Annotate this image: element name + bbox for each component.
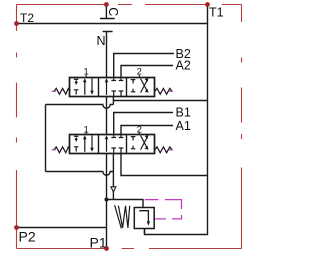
wire port B2: [114, 54, 174, 79]
svg-text:C: C: [106, 7, 120, 16]
wire valve2 T stub: [112, 153, 114, 200]
relief valve RV1 adjust arrow: [115, 205, 122, 228]
svg-text:1: 1: [84, 67, 89, 78]
svg-text:2: 2: [137, 125, 142, 136]
port node C: [104, 2, 109, 7]
tick position 1 valve V1: [85, 75, 87, 77]
valve V2 internals: [74, 134, 149, 153]
port node T2: [14, 21, 19, 26]
wire tank gallery hop 1: [46, 105, 114, 109]
valve V1 internals: [74, 77, 149, 96]
svg-text:N: N: [97, 34, 106, 48]
wire P riser lower: [106, 153, 108, 249]
port node T1: [205, 2, 210, 7]
wire P2 line: [17, 227, 107, 229]
svg-text:T2: T2: [20, 11, 34, 25]
enclosure boundary (red dash-dot frame): [17, 5, 242, 249]
tick position 1 valve V2: [85, 132, 87, 134]
relief valve RV1 internal arrow: [139, 211, 148, 222]
spring V2 right: [155, 147, 172, 153]
relief valve RV1 spring: [118, 206, 129, 228]
wire valve2 right port to tank line: [121, 153, 208, 176]
wire valve1 T to right tank line: [113, 100, 208, 102]
wire relief inlet: [107, 200, 144, 209]
svg-text:P1: P1: [90, 235, 107, 251]
junction relief tee: [105, 198, 109, 202]
svg-text:1: 1: [84, 125, 89, 136]
wire port A1: [121, 126, 173, 136]
spring V1 right: [155, 88, 172, 94]
valve V2 body: [70, 135, 155, 154]
svg-text:B1: B1: [176, 105, 191, 119]
svg-text:A1: A1: [176, 119, 191, 133]
pilot line X (magenta dashed): [145, 200, 182, 219]
svg-text:2: 2: [137, 67, 142, 78]
relief valve RV1 outlet: [144, 229, 146, 235]
valve V1 body: [70, 78, 155, 97]
tank symbol N: [103, 32, 113, 79]
port node P2: [14, 225, 19, 230]
tank symbol C: [100, 5, 115, 19]
svg-text:P2: P2: [19, 228, 36, 244]
tick position 2 valve V1: [138, 75, 140, 77]
tick position 2 valve V2: [138, 132, 140, 134]
port node P1: [104, 246, 109, 251]
spring V2 left: [54, 147, 70, 153]
spring V1 left: [54, 88, 70, 94]
pilot arrow (open, down): [111, 187, 116, 192]
wire tank top line T2-T1: [17, 23, 209, 25]
wire valve1 T stub: [112, 96, 114, 105]
wire port B1: [114, 113, 173, 136]
wire left tank riser: [45, 105, 47, 172]
svg-text:T1: T1: [209, 6, 224, 20]
relief valve RV1 body: [134, 208, 154, 229]
wire port A2: [121, 66, 173, 79]
wire T1 riser and right tank line: [145, 5, 208, 235]
wire P riser between valves: [106, 96, 108, 135]
wire tank gallery hop 2: [46, 172, 114, 176]
svg-text:A2: A2: [176, 58, 191, 72]
